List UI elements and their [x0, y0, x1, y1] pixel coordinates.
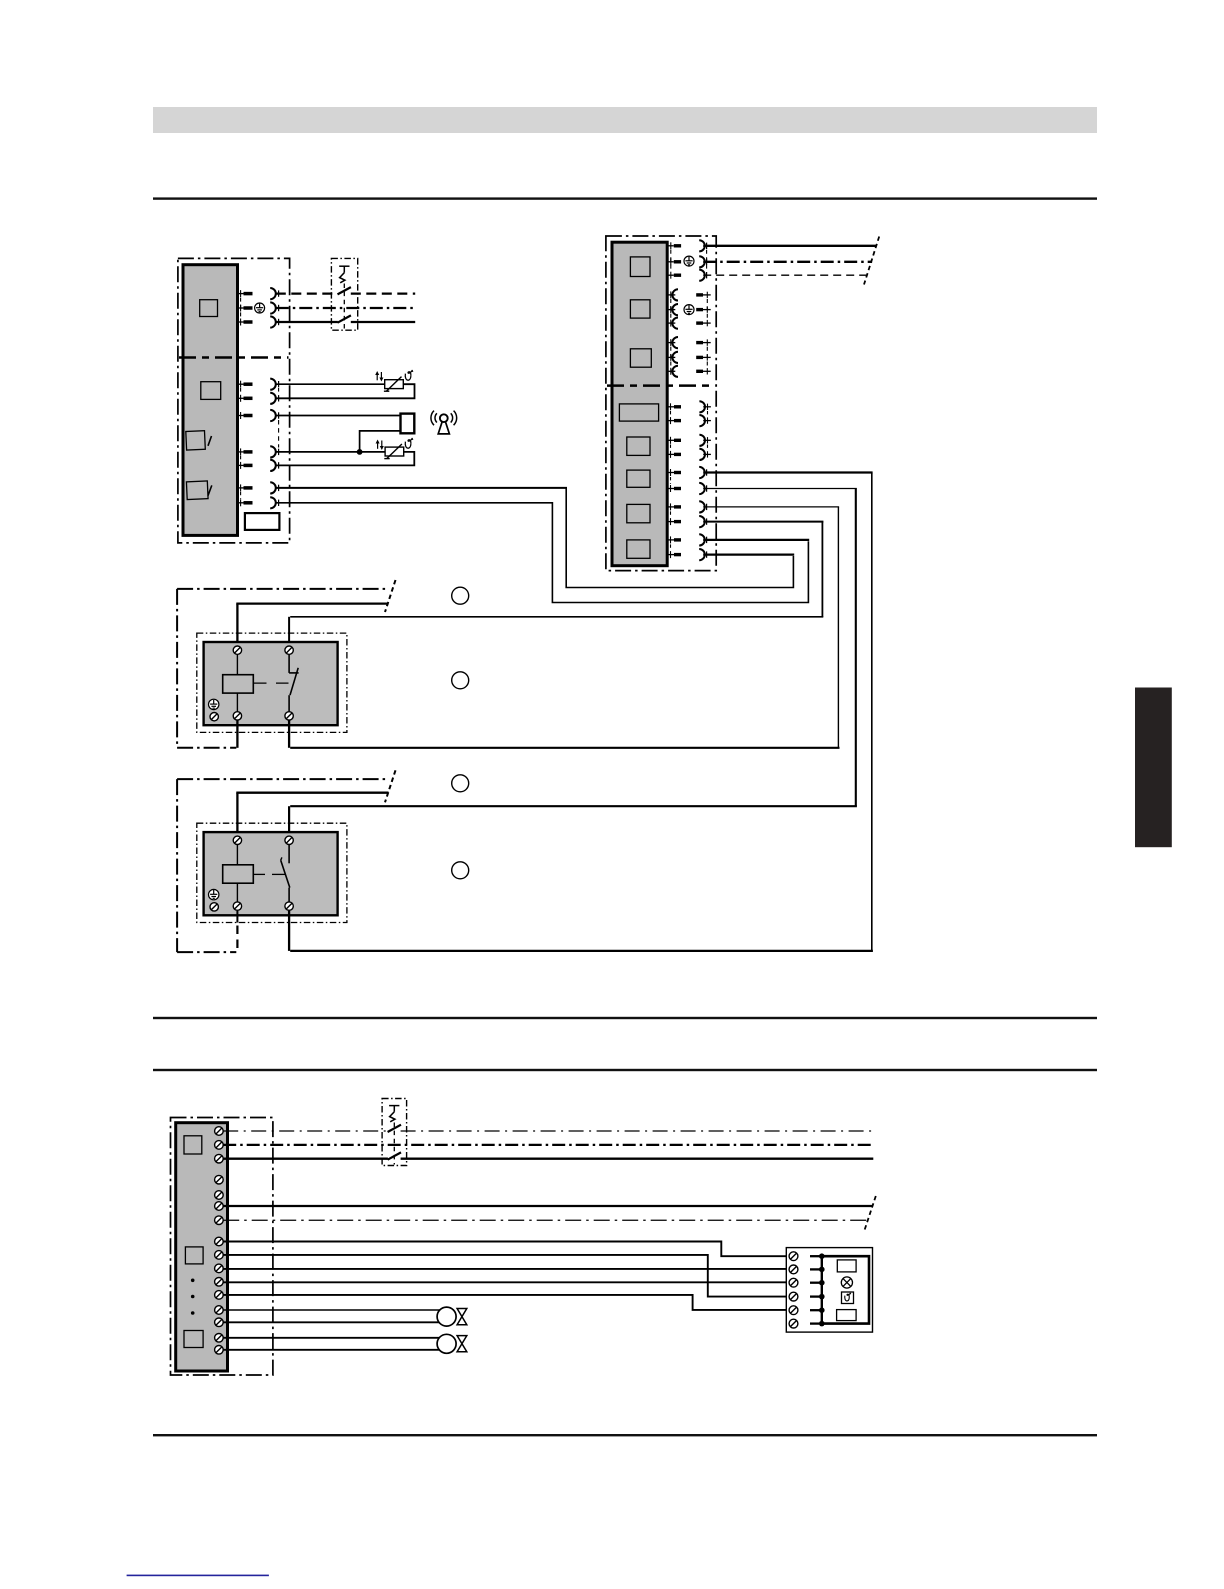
callout circle 4 — [452, 862, 469, 879]
wire U3-8 to U4 terminal 1 — [223, 1242, 789, 1257]
U1 terminal pin 7 — [238, 448, 253, 455]
wire U3-1 (dashed thin) to field — [223, 1130, 873, 1132]
K2 contact — [281, 845, 290, 902]
wire K1 coil supply — [236, 604, 388, 648]
U4 device frame — [822, 1256, 869, 1323]
U2 aux socket 2 (unmated) — [699, 415, 711, 426]
U4 bus junction 5 — [819, 1307, 825, 1313]
U4 bus junction 3 — [819, 1280, 825, 1286]
U1 terminal pin 9 — [238, 484, 253, 491]
wire to sensor R2 — [276, 451, 385, 453]
U4 lamp symbol — [841, 1277, 852, 1288]
U2 relay pin 2 — [667, 485, 681, 492]
R1 temperature symbol — [405, 370, 413, 380]
wire to radio module — [276, 415, 401, 417]
wire loop R1 return — [276, 384, 415, 398]
U4 screw terminal 3 — [789, 1278, 798, 1287]
thermistor R1 — [384, 377, 403, 392]
U2 relay pin 1 — [667, 469, 681, 476]
I/O unit U2 body — [612, 242, 667, 566]
U2 indicator square 5 — [627, 437, 650, 455]
K2 earth symbol — [209, 889, 219, 899]
wire K2 contact feed vertical — [288, 806, 290, 838]
U4 bus junction 1 — [819, 1253, 825, 1259]
K2 coil — [223, 845, 254, 902]
U1 indicator square 3 with slash — [186, 431, 212, 450]
U2 sensor socket 6 (unmated) — [667, 366, 678, 377]
R1 flow arrows — [375, 371, 383, 382]
U3 indicator square 1 — [184, 1136, 202, 1154]
K1 contact — [289, 655, 299, 712]
U2 aux pin 3 (unmated) — [667, 437, 681, 444]
top section rule — [153, 197, 1097, 199]
U1 indicator square 4 with slash — [186, 481, 211, 500]
U2 mains socket 2 — [699, 256, 706, 267]
U2 mains earth symbol — [684, 256, 694, 266]
I/O unit U2 enclosure (dash-dot boundary) — [606, 236, 716, 571]
U1 bottom white box — [245, 513, 280, 530]
footer link underline — [127, 1575, 269, 1577]
U2 mains wire N (dash-dot) — [703, 261, 872, 263]
U3 screw terminal 3 — [215, 1154, 224, 1163]
control unit U1 enclosure (dash-dot boundary) — [178, 258, 290, 543]
U4 screw terminal 1 — [789, 1252, 798, 1261]
U2 sensor socket 2 (unmated) — [667, 304, 678, 315]
switch S2 contact blade (bottom) — [388, 1152, 401, 1159]
U2 sensor plug 2 (unmated) — [696, 306, 711, 312]
U3 screw terminal 15 — [215, 1334, 224, 1343]
U2 aux socket 1 (unmated) — [699, 401, 711, 412]
valve Y2 — [437, 1334, 467, 1353]
U1 earth symbol — [255, 303, 265, 313]
U4 screw terminal 2 — [789, 1265, 798, 1274]
K1 mechanical link (dashed) — [254, 682, 290, 684]
U4 terminal link 1 — [810, 1255, 822, 1257]
callout circle 1 — [452, 587, 469, 604]
relay K2 body — [204, 832, 338, 915]
U1 connector socket 5 — [270, 393, 278, 404]
U2 aux pin 1 (unmated) — [667, 403, 681, 410]
U1 connector socket 10 — [270, 497, 278, 508]
U2 relay pin 6 — [667, 551, 681, 558]
U1 terminal pin 10 — [238, 499, 253, 506]
U1 terminal pin 4 — [238, 381, 253, 388]
U1 indicator square 2 — [201, 382, 221, 400]
U2 relay pin 3 — [667, 503, 681, 510]
U4 device rectangle 1 — [837, 1260, 856, 1272]
U2 relay pairing dashes — [670, 477, 672, 550]
K1 terminal 14 — [285, 712, 293, 720]
U3 screw terminal 14 — [215, 1318, 224, 1327]
U2 mains wire L (solid) — [703, 245, 876, 247]
U2 indicator square 8 — [627, 540, 650, 558]
wire U3-16 to valve Y2 — [223, 1349, 440, 1351]
U4 bus junction 4 — [819, 1294, 825, 1300]
switch S1 actuator T-bar and spring — [339, 266, 349, 329]
U2 mains pairing dashes — [671, 250, 707, 271]
K2 terminal A2 — [233, 902, 241, 910]
wire K2 coil supply — [236, 793, 388, 838]
wire U2 row 7 to relay K1 NO terminal — [290, 507, 839, 748]
U2 aux socket 3 (unmated) — [699, 435, 711, 446]
U4 terminal link 4 — [810, 1295, 822, 1297]
K2 terminal 11 — [285, 836, 293, 844]
U4 temperature sensor box — [842, 1292, 854, 1304]
U2 aux socket 4 (unmated) — [699, 449, 711, 460]
relay K1 module box (dash-dot) — [197, 633, 347, 732]
wire N (dash-dot) from U1 pin 2 — [276, 307, 415, 309]
U2 indicator square 2 — [630, 300, 650, 318]
switch S1 contact blade (bottom) — [338, 315, 351, 322]
wire U3-3 (solid) to field — [223, 1158, 873, 1160]
header bar — [153, 107, 1097, 133]
U2 sensor plug 6 (unmated) — [696, 368, 711, 374]
U2 relay socket 1 — [699, 467, 706, 478]
wire U3-15 to valve Y2 — [223, 1337, 440, 1339]
U3 screw terminal 5 — [215, 1191, 224, 1200]
U4 screw terminal 6 — [789, 1319, 798, 1328]
wire net B: U1 pin 10 to U2 row 9 — [276, 503, 809, 603]
U2 sensor socket 5 (unmated) — [667, 352, 678, 363]
wire net A: U1 pin 9 to U2 row 10 — [276, 488, 794, 588]
U2 sensor socket 1 (unmated) — [667, 289, 678, 300]
wire U2 row 5 to relay K2 NO terminal — [290, 473, 873, 951]
U2 sensor socket 3 (unmated) — [667, 318, 678, 329]
relay K1 site boundary (dash-dot) — [177, 589, 387, 748]
U3 indicator square 3 — [184, 1331, 203, 1348]
wire loop R2 return — [276, 452, 415, 466]
U3 field cable break (dashed diagonal) — [864, 1196, 875, 1231]
wire U3-13 to valve Y1 — [223, 1309, 440, 1311]
U1 connector socket 4 — [270, 379, 278, 390]
antenna symbol — [431, 411, 457, 434]
K1 cable break (dashed diagonal) — [385, 580, 396, 612]
wire K1 contact feed vertical — [288, 617, 290, 648]
U2 relay socket 4 — [699, 516, 706, 527]
U4 screw terminal 4 — [789, 1292, 798, 1301]
U1 terminal pin 8 — [238, 462, 253, 469]
U1 connector socket 2 — [270, 302, 278, 313]
control unit U1 body — [183, 265, 238, 536]
U2 sensor pairing dashes — [671, 299, 708, 367]
U1 connector socket 6 — [270, 410, 278, 421]
U4 screw terminal 5 — [789, 1306, 798, 1315]
U3 screw terminal 13 — [215, 1306, 224, 1315]
U4 internal bus — [821, 1256, 823, 1323]
U3 ellipsis dots — [191, 1279, 195, 1315]
U2 relay socket 5 — [699, 534, 706, 545]
wire U3-6 (solid) — [223, 1205, 872, 1207]
wire U3-11 to U4 terminal 3 — [223, 1281, 789, 1283]
U4 bus junction 2 — [819, 1267, 825, 1273]
switch S1 contact blade (top) — [338, 287, 351, 294]
U3 screw terminal 16 — [215, 1346, 224, 1355]
K2 mechanical link (dashed) — [254, 873, 286, 875]
U2 aux pin 2 (unmated) — [667, 417, 681, 424]
R2 temperature symbol — [405, 438, 413, 448]
wire K2 coil return (dashed below box) — [236, 911, 238, 952]
U3 screw terminal 2 — [215, 1141, 224, 1150]
control unit U3 body — [176, 1123, 228, 1371]
U2 indicator square 6 — [627, 470, 650, 487]
K1 terminal 11 — [285, 646, 293, 654]
interface unit U4 outline — [786, 1248, 872, 1333]
U3 screw terminal 1 — [215, 1127, 224, 1136]
thermistor R2 — [384, 444, 403, 459]
U2 internal partition (dashed) — [607, 384, 715, 387]
U3 indicator square 2 — [185, 1247, 203, 1264]
U3 screw terminal 6 — [215, 1202, 224, 1211]
bottom rule — [153, 1434, 1097, 1436]
U4 bus junction 6 — [819, 1321, 825, 1327]
U1 terminal pin 1 — [238, 290, 253, 297]
U2 mains wire PE (dashed thin) — [703, 274, 867, 276]
U3 screw terminal 10 — [215, 1264, 224, 1273]
K1 terminal A2 — [233, 712, 241, 720]
U2 sensor plug 5 (unmated) — [696, 354, 711, 360]
U2 indicator square 7 — [627, 504, 650, 522]
section rule 3 — [153, 1069, 1097, 1071]
switch S2 contact blade (top) — [388, 1125, 401, 1132]
U2 sensor plug 4 (unmated) — [696, 339, 711, 345]
U2 relay pin 4 — [667, 518, 681, 525]
wire radio module to sensor junction — [360, 431, 401, 452]
U1 connector socket 1 — [270, 288, 278, 299]
U2 sensor earth symbol — [684, 305, 694, 315]
wire U3-9 to U4 terminal 4 — [223, 1255, 789, 1297]
wire U3-12 to U4 terminal 5 — [223, 1295, 789, 1310]
U3 screw terminal 7 — [215, 1216, 224, 1225]
U1 internal partition (dashed) — [179, 356, 289, 359]
wire U2 row 8 to relay K1 COM terminal — [290, 522, 823, 617]
wire K2 contact output vertical — [288, 911, 290, 951]
U2 relay socket 3 — [699, 501, 706, 512]
U2 mains socket 1 — [699, 240, 706, 251]
relay K1 body — [204, 642, 338, 725]
valve Y1 — [437, 1307, 467, 1326]
U2 indicator square 1 — [630, 257, 650, 277]
wire U3-2 (dash-dot) to field — [223, 1144, 873, 1146]
K2 earth screw terminal — [210, 903, 218, 911]
K1 earth screw terminal — [210, 713, 218, 721]
U1 connector socket 7 — [270, 446, 278, 457]
U4 terminal link 3 — [810, 1282, 822, 1284]
K1 terminal A1 — [233, 646, 241, 654]
U2 mains socket 3 — [699, 270, 706, 281]
control unit U3 enclosure (dash-dot boundary) — [171, 1118, 273, 1376]
wire U3-10 to U4 terminal 2 — [223, 1268, 789, 1270]
U1 connector socket 9 — [270, 482, 278, 493]
wire K1 coil return — [236, 721, 238, 748]
U1 terminal pin 6 — [238, 412, 253, 419]
U3 screw terminal 12 — [215, 1291, 224, 1300]
K2 terminal 14 — [285, 902, 293, 910]
junction node — [357, 449, 363, 455]
callout circle 3 — [452, 775, 469, 792]
wire U3-7 (dash-dot thin) — [223, 1219, 867, 1221]
R2 flow arrows — [376, 440, 384, 451]
U1 terminal pin 3 — [238, 319, 253, 326]
relay K2 module box (dash-dot) — [197, 823, 347, 922]
U2 relay socket 6 — [699, 549, 706, 560]
U2 mains pin 2 — [667, 258, 681, 265]
U1 terminal pin 5 — [238, 395, 253, 402]
U2 mains cable break (dashed diagonal) — [864, 237, 879, 285]
wire K1 contact output vertical — [288, 721, 290, 748]
U2 sensor socket 4 (unmated) — [667, 337, 678, 348]
K1 earth symbol — [209, 699, 219, 709]
wire L1 (dashed) from U1 pin 1 — [276, 292, 415, 294]
U3 screw terminal 11 — [215, 1278, 224, 1287]
U4 device rectangle 2 — [837, 1310, 857, 1321]
switch S2 box (dash-dot) — [382, 1099, 407, 1166]
switch S2 actuator T-bar and spring — [389, 1106, 399, 1165]
callout circle 2 — [452, 672, 469, 689]
radio receiver box — [401, 414, 415, 434]
U4 terminal link 5 — [810, 1309, 822, 1311]
U1 indicator square 1 — [200, 300, 218, 317]
K2 cable break (dashed diagonal) — [385, 770, 396, 802]
U1 connector socket 3 — [270, 316, 278, 327]
U3 screw terminal 8 — [215, 1237, 224, 1246]
relay K2 site boundary (dash-dot) — [177, 779, 387, 952]
wire L (solid) from U1 pin 3 — [276, 321, 415, 323]
U4 terminal link 2 — [810, 1268, 822, 1270]
U1 terminal pin 2 — [238, 305, 253, 312]
U4 terminal link 6 — [810, 1322, 822, 1324]
K2 terminal A1 — [233, 836, 241, 844]
wire to sensor R1 — [276, 383, 385, 385]
wire U2 row 6 to relay K2 COM terminal — [290, 489, 857, 807]
U2 aux pin 4 (unmated) — [667, 451, 681, 458]
U1 connector socket 8 — [270, 460, 278, 471]
section rule 2 — [153, 1017, 1097, 1019]
U2 aux pairing dashes — [671, 411, 708, 450]
U2 indicator square 3 — [630, 349, 651, 367]
U3 screw terminal 9 — [215, 1251, 224, 1260]
U2 relay socket 2 — [699, 483, 706, 494]
U2 sensor plug 1 (unmated) — [696, 292, 711, 298]
U2 display rectangle — [619, 404, 658, 421]
K1 coil — [223, 655, 254, 712]
U1 pin pairing dashes — [241, 298, 279, 499]
U2 mains pin 1 — [667, 242, 681, 249]
U2 sensor plug 3 (unmated) — [696, 320, 711, 326]
switch S1 box (dash-dot) — [331, 258, 357, 330]
U2 relay pin 5 — [667, 536, 681, 543]
wire U3-14 to valve Y1 — [223, 1321, 440, 1323]
U3 screw terminal 4 — [215, 1175, 224, 1184]
U2 mains pin 3 — [667, 272, 681, 279]
thumb index bar — [1135, 688, 1172, 848]
